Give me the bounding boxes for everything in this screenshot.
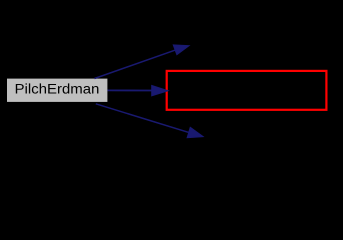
wire edge to red node <box>108 89 153 91</box>
arrowhead middle edge <box>152 85 169 96</box>
wire edge to upper node <box>95 50 177 79</box>
node PilchErdman <box>7 79 107 102</box>
arrowhead lower edge <box>187 127 203 138</box>
wire edge to lower node <box>96 104 190 133</box>
red node (empty) <box>167 71 327 110</box>
arrowhead upper edge <box>173 45 189 55</box>
